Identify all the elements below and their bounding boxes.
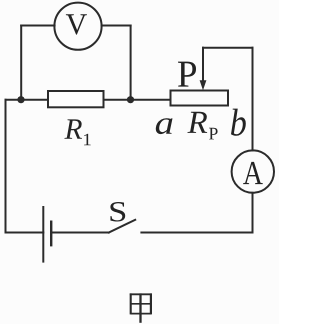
rheostat slider arrow xyxy=(200,80,207,90)
ammeter circle xyxy=(232,150,274,192)
wire slider top horizontal xyxy=(203,47,253,49)
wire slider vertical xyxy=(202,48,204,82)
voltmeter label V xyxy=(66,14,87,34)
rheostat RP body xyxy=(171,91,229,106)
switch S blade xyxy=(109,220,135,233)
node junction dot left xyxy=(17,96,24,103)
wire right vertical of voltmeter loop xyxy=(130,26,132,100)
wire left vertical of voltmeter loop xyxy=(20,26,22,100)
figure label jia xyxy=(130,293,152,322)
wire right vertical below ammeter xyxy=(252,193,254,233)
label P slider xyxy=(178,62,196,87)
battery long plate xyxy=(42,206,44,263)
wire battery to switch xyxy=(51,232,109,234)
label a terminal xyxy=(156,118,173,134)
wire main left segment xyxy=(6,99,49,101)
wire left vertical main xyxy=(5,100,7,233)
resistor label R1 subscript 1 xyxy=(84,134,91,145)
wire voltmeter to top right corner xyxy=(102,25,131,27)
node junction dot right xyxy=(127,96,134,103)
switch label S xyxy=(110,202,125,222)
ammeter label A xyxy=(243,162,263,184)
wire switch to right corner xyxy=(141,232,252,234)
rheostat label RP subscript P xyxy=(209,128,218,140)
resistor label R1 R xyxy=(64,119,82,138)
voltmeter circle xyxy=(54,3,101,50)
wire top left to voltmeter xyxy=(21,25,54,27)
battery short plate xyxy=(50,221,52,247)
wire R1 to RP xyxy=(104,99,171,101)
resistor R1 body xyxy=(48,91,104,107)
wire bottom to battery xyxy=(6,232,44,234)
rheostat label RP R xyxy=(187,112,207,133)
label b terminal xyxy=(231,109,246,136)
wire right vertical above ammeter xyxy=(252,48,254,151)
